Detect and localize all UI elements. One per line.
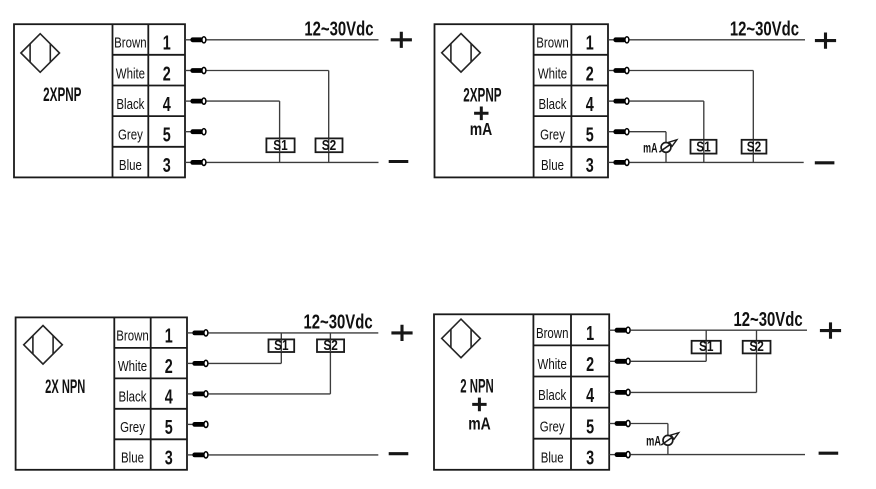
svg-text:Blue: Blue (121, 449, 144, 466)
svg-text:S2: S2 (749, 338, 764, 355)
svg-text:White: White (116, 65, 145, 82)
svg-text:S1: S1 (273, 137, 288, 154)
sensor body box U1 (14, 24, 185, 177)
wire blue 0V U4 (631, 454, 805, 456)
minus terminal U3 (389, 452, 409, 455)
label plus U4 (472, 398, 486, 412)
svg-text:1: 1 (586, 31, 594, 54)
sensor symbol U1 (21, 34, 60, 73)
wire black to S1 U2 (630, 101, 704, 140)
svg-text:2: 2 (165, 355, 173, 378)
wire blue 0V U3 (209, 454, 379, 456)
pin 2 connector U2 (608, 67, 629, 73)
label plus U2 (474, 107, 488, 121)
svg-text:12~30Vdc: 12~30Vdc (304, 17, 373, 40)
svg-text:1: 1 (163, 31, 171, 54)
pin 4 connector U2 (608, 98, 629, 104)
meter M1 (mA) U2 (659, 140, 677, 153)
svg-text:Brown: Brown (114, 34, 147, 51)
switch S2 (bottom-right) (743, 338, 771, 355)
minus terminal U4 (819, 452, 839, 455)
svg-text:Brown: Brown (536, 324, 569, 341)
svg-text:White: White (538, 356, 567, 373)
svg-text:4: 4 (586, 384, 594, 407)
wire white to S1 U3 (209, 352, 282, 363)
svg-text:White: White (538, 65, 567, 82)
svg-text:5: 5 (163, 123, 171, 146)
wire S2 to brown U4 (756, 330, 758, 341)
sensor symbol U3 (24, 326, 63, 365)
svg-text:White: White (118, 358, 147, 375)
wire brown +V U3 (209, 332, 379, 334)
sensor body box U2 (435, 24, 609, 177)
pin 1 connector U4 (609, 327, 630, 333)
svg-text:12~30Vdc: 12~30Vdc (730, 17, 799, 40)
svg-text:2: 2 (586, 62, 594, 85)
svg-text:2XPNP: 2XPNP (463, 86, 501, 106)
svg-text:1: 1 (165, 324, 173, 347)
wire S1 to brown U3 (280, 333, 282, 340)
svg-text:3: 3 (165, 446, 173, 469)
svg-text:mA: mA (646, 432, 661, 449)
switch S2 (bottom-left) (317, 336, 344, 353)
wire S1 to brown U4 (705, 330, 707, 341)
sensor body box U3 (16, 317, 187, 469)
svg-text:5: 5 (165, 416, 173, 439)
wire white to S2 U1 (207, 71, 329, 139)
svg-text:S2: S2 (747, 138, 762, 155)
wire brown +V U1 (207, 39, 379, 41)
sensor symbol U2 (442, 34, 481, 73)
terminal column lines U1 (113, 24, 186, 177)
terminal column lines U2 (534, 24, 608, 177)
wire meter to blue U2 (665, 152, 667, 162)
wire black to S2 U3 (209, 352, 331, 394)
wire S1 to blue U2 (703, 154, 705, 163)
plus terminal U1 (391, 32, 412, 48)
svg-text:2: 2 (586, 353, 594, 376)
svg-text:Black: Black (538, 387, 566, 404)
svg-text:Blue: Blue (541, 449, 564, 466)
svg-text:S2: S2 (323, 336, 338, 353)
svg-text:5: 5 (586, 123, 594, 146)
svg-text:2: 2 (163, 62, 171, 85)
svg-text:Black: Black (538, 95, 566, 112)
wire black to S1 U1 (207, 101, 280, 138)
svg-text:Brown: Brown (116, 327, 149, 344)
pin 2 connector U4 (609, 358, 630, 364)
pin 5 connector U2 (608, 129, 629, 135)
svg-text:Grey: Grey (540, 418, 565, 435)
svg-text:2 NPN: 2 NPN (460, 377, 494, 398)
pin 5 connector U1 (185, 129, 206, 135)
wire S2 to blue U1 (328, 152, 330, 162)
pin 4 connector U4 (609, 389, 630, 395)
plus terminal U2 (815, 33, 836, 49)
svg-text:4: 4 (163, 93, 171, 116)
wire brown +V U2 (630, 39, 806, 41)
minus terminal U2 (815, 161, 835, 164)
switch S2 (top-left) (316, 137, 343, 154)
svg-text:Blue: Blue (541, 157, 564, 174)
pin 5 connector U4 (609, 420, 630, 426)
svg-text:S1: S1 (696, 138, 711, 155)
pin 5 connector U3 (187, 421, 208, 427)
svg-text:1: 1 (586, 322, 594, 345)
minus terminal U1 (389, 160, 409, 163)
switch S1 (top-left) (266, 137, 294, 154)
switch S2 (top-right) (742, 138, 767, 155)
svg-text:12~30Vdc: 12~30Vdc (733, 308, 802, 331)
wire black to S2 U4 (631, 353, 757, 392)
wire brown +V U4 (631, 329, 807, 331)
plus terminal U3 (391, 325, 412, 341)
svg-text:mA: mA (468, 415, 491, 434)
sensor symbol U4 (442, 319, 481, 358)
svg-text:mA: mA (643, 142, 657, 156)
svg-text:S1: S1 (699, 338, 714, 355)
svg-text:mA: mA (470, 120, 493, 139)
pin 4 connector U3 (187, 391, 208, 397)
pin 2 connector U3 (187, 360, 208, 366)
svg-text:Grey: Grey (540, 126, 565, 143)
terminal column lines U3 (114, 317, 187, 469)
pin 1 connector U2 (608, 37, 629, 43)
svg-text:2XPNP: 2XPNP (43, 85, 81, 105)
svg-text:S2: S2 (322, 137, 337, 154)
wire white to S2 U2 (630, 71, 754, 140)
svg-text:2X NPN: 2X NPN (45, 377, 85, 398)
svg-text:Grey: Grey (120, 419, 145, 436)
pin 3 connector U2 (608, 159, 629, 165)
svg-text:4: 4 (165, 385, 173, 408)
svg-text:Brown: Brown (536, 34, 569, 51)
meter M2 (mA) U4 (661, 433, 679, 445)
svg-text:12~30Vdc: 12~30Vdc (303, 310, 372, 333)
pin 3 connector U1 (185, 159, 206, 165)
svg-text:3: 3 (586, 446, 594, 469)
wire blue 0V U2 (630, 161, 804, 163)
wire white to S1 U4 (631, 353, 707, 361)
pin 1 connector U1 (185, 37, 206, 43)
svg-text:3: 3 (163, 154, 171, 177)
svg-text:4: 4 (586, 93, 594, 116)
pin 4 connector U1 (185, 98, 206, 104)
switch S1 (bottom-left) (269, 336, 295, 353)
svg-text:Grey: Grey (118, 126, 143, 143)
plus terminal U4 (820, 322, 841, 338)
wire S2 to blue U2 (752, 154, 754, 163)
wire S1 to blue U1 (279, 152, 281, 162)
svg-text:3: 3 (586, 154, 594, 177)
wire grey to meter U2 (630, 132, 667, 143)
wire blue 0V U1 (207, 161, 379, 163)
pin 2 connector U1 (185, 67, 206, 73)
svg-text:S1: S1 (274, 336, 289, 353)
svg-text:Blue: Blue (119, 157, 142, 174)
wire grey to meter U4 (631, 424, 668, 436)
terminal column lines U4 (533, 314, 609, 470)
svg-text:Black: Black (118, 388, 146, 405)
svg-text:Black: Black (116, 95, 144, 112)
sensor body box U4 (434, 314, 609, 470)
switch S1 (top-right) (691, 138, 717, 155)
pin 1 connector U3 (187, 330, 208, 336)
switch S1 (bottom-right) (692, 338, 721, 355)
pin 3 connector U3 (187, 452, 208, 458)
pin 3 connector U4 (609, 452, 630, 458)
wire meter to blue U4 (667, 445, 669, 455)
wire S2 to brown U3 (329, 333, 331, 340)
svg-text:5: 5 (586, 415, 594, 438)
